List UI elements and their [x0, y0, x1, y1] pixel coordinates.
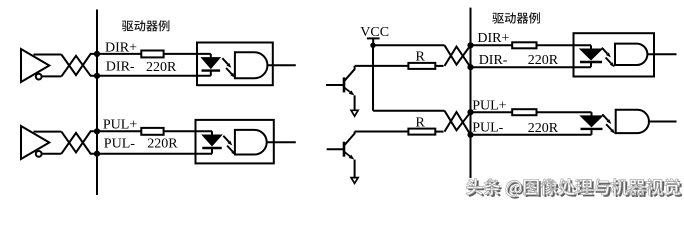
node PUL- junction dot: [94, 151, 100, 157]
opto U4 light arrow 2: [606, 124, 612, 130]
transistor Q2 emitter with arrow: [344, 152, 350, 157]
opto U2 LED triangle: [202, 135, 221, 146]
opto U2 light arrow 2: [227, 146, 233, 152]
wire resistor to opto U2: [164, 130, 212, 132]
Q2 emitter open arrowhead: [351, 178, 358, 184]
transistor Q2 base bar: [343, 142, 346, 157]
node PUL+ junction dot (right): [467, 109, 473, 115]
resistor 220R (DIR left): [141, 51, 163, 58]
transistor Q1 base wire: [326, 84, 344, 86]
svg-text:PUL-: PUL-: [472, 121, 503, 136]
opto U4 output wire: [649, 120, 677, 122]
opto U2 detector gate: [235, 130, 267, 155]
svg-text:DIR+: DIR+: [477, 31, 509, 46]
resistor 220R (PUL left): [141, 128, 163, 135]
opto U4 detector gate: [616, 110, 649, 133]
A1 inverting output bubble: [36, 74, 42, 80]
opto U4 LED cathode bar: [581, 128, 603, 130]
node PUL- junction dot (right): [467, 132, 473, 138]
wire DIR- to opto U3: [471, 66, 592, 68]
node PUL+ junction dot: [94, 128, 100, 134]
wire resistor to opto U3: [537, 44, 592, 46]
A1 non-inverting output wire: [34, 54, 62, 56]
wire DIR+ to resistor (right): [471, 44, 513, 46]
Q1 emitter open arrowhead: [351, 110, 358, 116]
svg-text:PUL-: PUL-: [104, 137, 135, 152]
node DIR- junction dot: [94, 73, 100, 79]
opto U3 light arrow 2: [606, 58, 612, 64]
twisted pair wire A (DIR): [61, 54, 96, 75]
wire R1 to twisted pair: [435, 65, 443, 67]
node VCC junction dot: [370, 43, 375, 48]
twisted pair wire A (right PUL): [445, 111, 471, 131]
opto U2 LED anode stub: [211, 131, 213, 135]
opto U1 LED cathode stub: [210, 71, 212, 76]
wire PUL- to opto U4: [471, 134, 592, 136]
opto U4 LED cathode stub: [591, 129, 593, 135]
opto U1 output wire: [267, 64, 295, 66]
wire resistor to opto U4: [537, 111, 592, 113]
opto U2 light arrow 1: [223, 136, 229, 142]
opto U3 LED triangle: [580, 49, 602, 60]
twisted pair wire B (right PUL): [445, 112, 471, 135]
buffer/line-driver A2 triangle: [21, 126, 49, 159]
opto U3 LED anode stub: [590, 45, 592, 49]
wire PUL+ to resistor (right): [471, 111, 513, 113]
opto U3 LED cathode stub: [590, 62, 592, 67]
opto U1 detector gate: [235, 52, 268, 78]
transistor Q1 collector: [344, 66, 355, 81]
svg-text:220R: 220R: [528, 53, 559, 68]
twisted pair wire A (right DIR): [445, 45, 471, 64]
wire PUL+ to resistor: [97, 130, 141, 132]
Q1 emitter down wire: [354, 95, 356, 110]
resistor 220R (right DIR): [512, 42, 536, 48]
opto U1 LED cathode bar: [202, 69, 221, 71]
svg-text:PUL+: PUL+: [472, 98, 506, 113]
wire Q1 collector to R1: [355, 65, 409, 67]
label 驱动器例 (right): [492, 12, 540, 23]
transistor Q1 emitter with arrow: [344, 87, 350, 92]
VCC terminal tick: [367, 37, 380, 39]
transistor Q2 collector: [344, 132, 355, 146]
wire R2 to twisted pair: [435, 131, 443, 133]
right driver boundary bus line: [470, 8, 472, 178]
opto U3 LED cathode bar: [580, 61, 602, 63]
opto U3 detector gate: [615, 44, 647, 65]
buffer/line-driver A1 triangle: [21, 49, 49, 82]
label 驱动器例 (left): [122, 20, 170, 31]
watermark 头条 @图像处理与机器视觉: [466, 179, 682, 199]
A2 inverting output wire: [42, 153, 62, 155]
opto U1 LED triangle: [202, 58, 221, 69]
twisted pair wire B (right DIR): [445, 47, 471, 68]
VCC rail vertical wire: [372, 45, 374, 110]
opto U1 LED anode stub: [210, 54, 212, 58]
opto U2 output wire: [267, 141, 296, 143]
opto U1 light arrow 2: [226, 68, 232, 74]
A2 inverting output bubble: [36, 151, 42, 157]
wire resistor to opto U1: [164, 53, 211, 55]
twisted pair wire B (PUL): [61, 133, 96, 154]
svg-text:220R: 220R: [147, 137, 178, 152]
opto U4 LED triangle: [581, 116, 603, 127]
wire DIR+ to resistor: [97, 53, 141, 55]
opto U1 light arrow 1: [222, 58, 228, 64]
twisted pair wire B (DIR): [61, 56, 96, 77]
svg-text:220R: 220R: [528, 121, 559, 136]
node DIR+ junction dot (right): [467, 42, 473, 48]
transistor Q2 base wire: [327, 148, 344, 150]
twisted pair wire A (PUL): [61, 131, 96, 152]
node DIR- junction dot (right): [467, 64, 473, 70]
A1 inverting output wire: [42, 75, 62, 77]
opto U4 light arrow 1: [602, 114, 608, 120]
VCC stub to node: [372, 38, 374, 45]
opto U4 LED anode stub: [591, 112, 593, 116]
opto-isolator U1 package outline: [197, 43, 273, 86]
wire Q2 collector to R2: [355, 131, 409, 133]
opto U2 LED cathode bar: [202, 147, 221, 149]
svg-text:DIR-: DIR-: [479, 53, 508, 68]
wire PUL- to opto U2: [97, 153, 212, 155]
left driver boundary bus line: [96, 10, 98, 196]
node DIR+ junction dot: [94, 51, 100, 57]
opto-isolator U3 package outline: [574, 33, 655, 76]
Q2 emitter down wire: [354, 160, 356, 178]
opto U2 LED cathode stub: [211, 148, 213, 154]
wire DIR- to opto U1: [97, 75, 211, 77]
opto-isolator U2 package outline: [196, 120, 274, 163]
opto U3 light arrow 1: [602, 48, 608, 54]
wire VCC rail to twisted pair (PUL): [373, 110, 445, 112]
resistor R1: [408, 63, 435, 69]
transistor Q1 base bar: [343, 77, 346, 92]
svg-text:DIR-: DIR-: [106, 60, 135, 75]
opto U3 output wire: [647, 53, 676, 55]
resistor R2: [408, 129, 435, 135]
svg-text:220R: 220R: [146, 60, 177, 75]
wire VCC to twisted pair (DIR): [373, 44, 445, 46]
A2 non-inverting output wire: [34, 131, 62, 133]
resistor 220R (right PUL): [512, 109, 536, 115]
